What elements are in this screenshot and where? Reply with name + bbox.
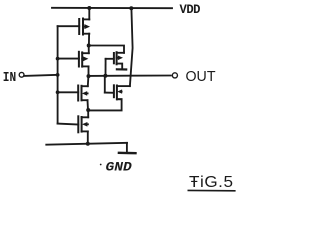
wire GND rail (46, 143, 127, 145)
label GND speck (100, 164, 102, 166)
wire node B to Q6 source (88, 99, 121, 110)
node bus tap Q3 gate (56, 90, 60, 94)
label Fig.5 underline (188, 189, 235, 191)
node GND junction at Q4 source (86, 142, 90, 146)
node VDD junction at Q1 drain (87, 6, 91, 10)
transistor Q2 (PMOS second, gate lead + gate bar + channel + leads + arrow) (58, 52, 89, 67)
wire Q1 source down to node A (88, 34, 90, 46)
node IN tap on input bus (56, 73, 60, 77)
svg-text:IN: IN (3, 71, 16, 86)
ground symbol bar (119, 152, 136, 155)
wire Q1 drain to VDD rail (88, 8, 90, 19)
wire Q2 drain up to node A (88, 46, 90, 54)
wire VDD rail (52, 7, 172, 9)
terminal IN circle (19, 72, 24, 77)
wire Q3 drain up to OUT node (87, 76, 90, 86)
svg-text:OUT: OUT (186, 69, 216, 85)
wire Q6 drain riser up to VDD rail (crosses OUT line) (130, 8, 133, 86)
transistor Q1 (PMOS top, gate lead + gate bar + channel + leads + arrow) (58, 19, 90, 35)
wire Q3 source down to node B (87, 100, 90, 110)
terminal OUT circle (172, 73, 177, 78)
wire Q4 source down to GND rail (87, 131, 89, 143)
svg-text:VDD: VDD (180, 2, 201, 17)
node VDD junction at Q6 drain riser (129, 6, 133, 10)
ground bar at Q5 drain (117, 68, 126, 70)
transistor Q6 (NMOS feedback, gate to OUT, drain to VDD, source to node B) (105, 76, 130, 100)
wire IN lead to input bus (24, 75, 57, 76)
wire OUT line (89, 75, 171, 77)
ground symbol stub at rail right end (126, 143, 128, 152)
svg-text:GND: GND (106, 159, 133, 174)
wire input gate bus vertical (57, 26, 59, 123)
transistor Q4 (NMOS bottom, gate lead + gate bar + channel + leads + arrow) (58, 116, 89, 132)
svg-text:ŦiG.5: ŦiG.5 (189, 174, 234, 191)
wire Q2 source down to OUT node (88, 66, 90, 76)
transistor Q3 (NMOS, gate lead + gate bar + channel + leads + arrow) (58, 86, 88, 101)
wire node A to Q5 source riser (89, 46, 124, 53)
node B junction (between Q3 and Q4) (86, 108, 90, 112)
node bus tap Q2 gate (56, 57, 60, 61)
wire Q4 drain up to node B (87, 110, 89, 117)
node OUT tap for Q5/Q6 gates (103, 74, 107, 78)
transistor Q5 (PMOS feedback, gate to OUT, source to node A, drain to ground bar) (106, 52, 125, 75)
node A junction (between Q1 and Q2) (87, 44, 91, 48)
node OUT junction on left column (87, 74, 91, 78)
